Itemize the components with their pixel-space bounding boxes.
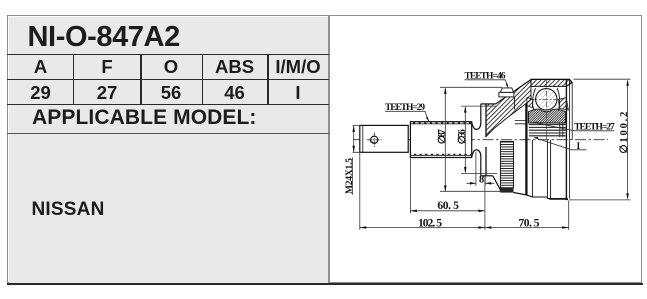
row line under APPLICABLE MODEL <box>7 133 329 135</box>
bell lip bottom edge <box>481 175 493 177</box>
bell mouth inner steps <box>515 121 526 124</box>
spline bore lines <box>529 125 566 136</box>
dia87 extension lines <box>440 87 503 191</box>
dia100 arrows <box>626 79 629 200</box>
race bottom edge thick corner <box>549 198 568 200</box>
teeth46 leader <box>465 80 508 87</box>
svg-text:60. 5: 60. 5 <box>437 200 459 212</box>
bell lip top edge <box>481 103 496 105</box>
header O <box>141 56 201 78</box>
race top edge thick <box>531 79 572 82</box>
dim102.5 line <box>360 227 485 229</box>
cage right wedge hatched <box>558 98 568 111</box>
bell wall hatched section <box>486 80 531 137</box>
teeth27 arrow <box>533 122 538 124</box>
row line under values <box>7 104 329 106</box>
dia56 dimension line <box>464 107 466 173</box>
bore back verticals <box>560 124 563 138</box>
spline barrel <box>410 122 471 158</box>
svg-text:I: I <box>577 142 581 152</box>
column line 3 <box>202 54 204 104</box>
table zone gray background <box>9 17 329 283</box>
row line under title <box>7 54 329 56</box>
tone ring band dark bottom <box>500 188 513 193</box>
dim60.5 line <box>410 210 485 212</box>
dim8 arrows <box>470 182 491 185</box>
value 27 <box>74 82 140 104</box>
I label leader <box>535 138 587 150</box>
svg-text:102. 5: 102. 5 <box>418 217 442 229</box>
divider table/drawing <box>328 15 330 283</box>
shaft chamfer line <box>362 125 364 152</box>
M24 underline <box>352 157 354 195</box>
dimension graphics <box>353 79 631 230</box>
ball <box>536 89 557 110</box>
tone ring shoulder vertical <box>514 97 516 110</box>
dia100 extension lines <box>569 79 631 200</box>
thread crest arc <box>369 138 372 143</box>
race right edge thick <box>565 80 567 200</box>
dim8 extension lines <box>476 152 485 186</box>
svg-text:TEETH=46: TEETH=46 <box>465 71 506 81</box>
dim70.5 line <box>485 227 569 229</box>
dim102.5 extension line <box>360 153 485 230</box>
thread minor circle arc <box>372 142 377 144</box>
dim70.5 extension line <box>568 201 570 230</box>
tone ring section tooth <box>500 88 513 92</box>
make NISSAN <box>32 199 105 221</box>
svg-text:TEETH=29: TEETH=29 <box>385 103 425 113</box>
main center line <box>353 139 608 141</box>
spline teeth ticks top <box>413 122 471 124</box>
column line 2 <box>140 54 142 104</box>
teeth46 arrow <box>506 84 509 89</box>
dim70.5 arrows <box>485 226 569 229</box>
spline inner edge lines <box>410 124 471 155</box>
dim60.5 extension lines <box>410 159 485 214</box>
stub shaft body <box>360 125 408 152</box>
dia87 arrows <box>444 87 447 191</box>
thread center mark cross <box>367 133 381 147</box>
dim8 line left <box>467 182 495 184</box>
dim60.5 arrows <box>410 210 485 213</box>
part number title <box>28 21 328 54</box>
column line 4 <box>267 54 269 104</box>
spline teeth ticks bottom <box>414 153 471 155</box>
dia100 dimension line <box>627 84 629 196</box>
neck bottom profile <box>472 150 481 176</box>
bell lip front face <box>485 104 487 176</box>
dia56 arrows <box>464 106 467 173</box>
svg-text:∅100.2: ∅100.2 <box>618 112 630 154</box>
cage right arc <box>557 88 559 110</box>
column line 1 <box>73 54 75 104</box>
ball inner shading <box>536 89 556 109</box>
dia56 extension lines <box>461 106 497 173</box>
bell mouth second vertical <box>531 140 533 197</box>
dim102.5 arrows <box>360 226 485 229</box>
svg-text:70. 5: 70. 5 <box>519 217 540 229</box>
bell outer surface below ring <box>514 193 533 197</box>
race right edge lines <box>570 80 573 199</box>
cage left arc <box>533 88 536 110</box>
teeth27 leader <box>535 123 614 131</box>
bell outer surface diagonal <box>496 80 531 104</box>
svg-text:∅56: ∅56 <box>457 129 468 144</box>
header F <box>74 56 140 78</box>
neck top profile <box>472 104 481 129</box>
race top wall band hatched <box>531 79 572 86</box>
drawing labels <box>345 71 630 229</box>
bottom dark border line <box>7 283 643 285</box>
I label arrow <box>533 137 538 139</box>
teeth29 leader <box>385 111 428 121</box>
shaft dim arrows <box>352 125 355 152</box>
race bottom steps <box>532 197 568 200</box>
bell outline lip to ring diagonal <box>493 176 501 192</box>
bell mouth face thick vertical <box>525 104 527 195</box>
boot groove verticals <box>547 140 550 199</box>
row line under headers <box>7 79 329 81</box>
value 56 <box>141 82 201 104</box>
value 46 <box>202 82 267 104</box>
shaft diameter dimension line <box>353 125 355 152</box>
inner race wedge hatched dense <box>528 109 565 123</box>
value 29 <box>8 82 73 104</box>
svg-text:TEETH=27: TEETH=27 <box>574 122 615 132</box>
tone ring external band <box>500 141 513 188</box>
applicable model label <box>32 106 257 130</box>
shaft edge extension ticks <box>353 125 362 152</box>
header ABS <box>202 56 267 78</box>
svg-text:M24X1.5: M24X1.5 <box>345 158 355 194</box>
header A <box>8 56 73 78</box>
value I <box>268 82 328 104</box>
thread center mark circle <box>371 136 378 143</box>
cage left wedge hatched <box>527 98 533 108</box>
ball center lines <box>532 80 562 140</box>
tone ring section base <box>499 92 514 97</box>
header I/M/O <box>268 56 328 78</box>
dia87 dimension line <box>444 88 446 191</box>
svg-text:∅87: ∅87 <box>437 129 448 144</box>
svg-text:8: 8 <box>479 174 484 185</box>
teeth29 arrow <box>426 117 429 122</box>
